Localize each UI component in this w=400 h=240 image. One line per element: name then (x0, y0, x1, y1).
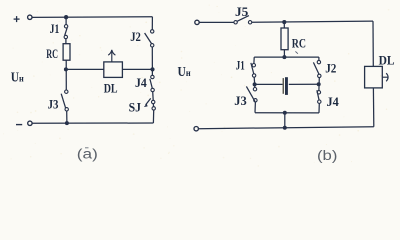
wire J3 to bottom (a) (66, 111, 68, 123)
switch J1 (b) (252, 63, 255, 66)
node at RC tap (b) (282, 20, 286, 24)
svg-text:DL: DL (104, 81, 118, 96)
node bridge right (b) (317, 82, 321, 86)
bridge bottom wire (b) (255, 112, 319, 114)
bridge left rail upper (b) (253, 57, 255, 63)
svg-text:DL: DL (379, 53, 395, 68)
capacitor right wire (b) (289, 83, 319, 85)
switch J1 (a) (64, 25, 67, 28)
svg-text:SJ: SJ (129, 99, 142, 114)
svg-text:(b): (b) (317, 148, 337, 163)
svg-text:RC: RC (46, 46, 58, 61)
wire RC to J3 (a) (65, 60, 67, 90)
resistor RC (b) (281, 28, 288, 50)
node top-left rail (a) (64, 15, 68, 19)
switch J2 (b) (317, 60, 320, 63)
bridge top wire (b) (254, 56, 319, 58)
minus terminal label (16, 124, 22, 126)
wire J5 to right rail (b) (252, 21, 373, 22)
bottom wire (b) (198, 127, 373, 129)
terminal top-left (b) (195, 20, 199, 24)
stray mark above bridge (b) (295, 51, 298, 53)
terminal bottom-left (a) (28, 121, 32, 125)
arrow right of DL (b) (383, 73, 389, 81)
wire J2 to mid node (b) (318, 78, 320, 91)
svg-text:J2: J2 (325, 61, 336, 76)
resistor RC (a) (63, 44, 70, 61)
right rail top segment (a) (151, 17, 153, 30)
svg-text:J3: J3 (48, 97, 59, 112)
svg-text:J2: J2 (130, 29, 141, 44)
svg-text:J1: J1 (50, 21, 60, 36)
switch J5 (b) (234, 21, 237, 24)
wire node to J1 (a) (65, 17, 67, 24)
switch J3 (b) (253, 88, 256, 91)
switch J4 (a) (151, 75, 154, 78)
node bottom rail (b) (283, 126, 287, 130)
wire top (a) (32, 16, 152, 19)
switch J2 (a) (151, 30, 154, 33)
wire J4 to bridge bottom (b) (318, 103, 320, 113)
wire node to RC (b) (283, 22, 285, 28)
wire J3 to bridge bottom (b) (254, 102, 256, 113)
wire to J5 (b) (199, 21, 234, 23)
wire node to DL (a) (66, 68, 104, 70)
node bottom-left rail (a) (65, 121, 69, 125)
svg-text:J4: J4 (327, 94, 340, 109)
node bridge left (b) (253, 82, 257, 86)
switch J3 (a) (65, 90, 68, 93)
capacitor left wire (b) (255, 83, 283, 85)
svg-text:J4: J4 (135, 75, 147, 90)
wire RC to bridge top (b) (283, 50, 285, 57)
bridge right rail upper (b) (318, 57, 320, 60)
svg-text:J1: J1 (236, 58, 245, 73)
plus terminal label (14, 16, 20, 22)
capacitor C (b) (283, 78, 284, 94)
wire bridge bottom to bottom rail (b) (284, 113, 286, 128)
svg-text:RC: RC (292, 35, 306, 50)
svg-text:(a): (a) (77, 146, 98, 161)
node right mid (a) (150, 67, 154, 71)
caption (a) macron artifact (85, 147, 89, 149)
switch SJ (a) (152, 100, 155, 103)
terminal bottom-left (b) (194, 127, 198, 131)
node bridge bottom (b) (283, 111, 287, 115)
svg-text:J5: J5 (235, 4, 249, 19)
right rail lower (b) (372, 88, 374, 127)
wire SJ to bottom (a) (152, 110, 154, 123)
wire J1 to RC (a) (65, 39, 67, 44)
switch J4 (b) (317, 91, 320, 94)
relay coil DL (a) (104, 62, 123, 78)
arrow above DL (a) (108, 50, 115, 62)
wire DL to right node (a) (122, 68, 152, 70)
operating arrow SJ (a) (146, 98, 151, 105)
wire bottom (a) (32, 122, 153, 124)
right rail upper (b) (372, 21, 374, 66)
node left mid (a) (64, 67, 68, 71)
terminal top-left (a) (28, 15, 32, 19)
wire J1 to mid node (b) (253, 77, 256, 87)
wire J4 to SJ (a) (152, 92, 155, 101)
relay coil DL (b) (365, 66, 383, 88)
page background (0, 0, 400, 169)
node bridge top (b) (282, 55, 286, 59)
svg-text:J3: J3 (234, 93, 247, 108)
wire J2 to node (a) (151, 47, 153, 75)
